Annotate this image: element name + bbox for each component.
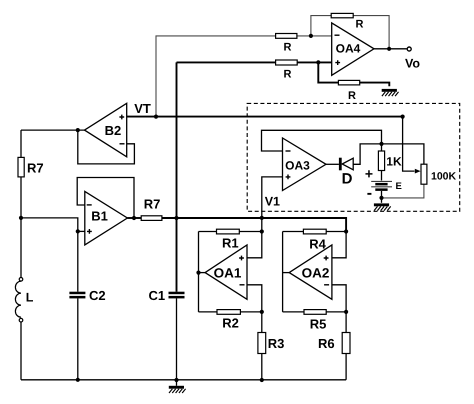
svg-text:OA4: OA4 (336, 41, 361, 55)
svg-text:E: E (396, 181, 402, 192)
svg-text:R6: R6 (318, 336, 335, 351)
svg-text:B1: B1 (91, 208, 108, 223)
svg-text:R: R (284, 68, 292, 80)
svg-text:C1: C1 (149, 288, 166, 303)
svg-text:OA2: OA2 (302, 266, 330, 281)
svg-text:R4: R4 (309, 237, 326, 252)
svg-text:B2: B2 (105, 123, 122, 138)
svg-text:C2: C2 (89, 288, 106, 303)
svg-text:OA3: OA3 (285, 158, 310, 172)
svg-text:R7: R7 (27, 161, 44, 176)
svg-text:D: D (342, 171, 353, 188)
svg-text:VT: VT (134, 101, 151, 116)
svg-text:OA1: OA1 (214, 266, 242, 281)
svg-text:R: R (284, 41, 292, 53)
svg-text:+: + (365, 166, 373, 182)
svg-text:R1: R1 (222, 236, 239, 251)
svg-text:L: L (26, 291, 34, 305)
svg-text:R3: R3 (268, 336, 285, 351)
svg-text:-: - (367, 185, 372, 202)
svg-text:100K: 100K (431, 170, 457, 182)
svg-text:R7: R7 (144, 197, 161, 212)
svg-text:R: R (348, 90, 356, 102)
svg-text:Vo: Vo (405, 57, 420, 71)
svg-text:R2: R2 (222, 316, 239, 331)
svg-text:1K: 1K (386, 154, 402, 168)
svg-text:R: R (356, 18, 364, 30)
svg-text:R5: R5 (310, 317, 327, 332)
svg-text:V1: V1 (265, 195, 280, 209)
